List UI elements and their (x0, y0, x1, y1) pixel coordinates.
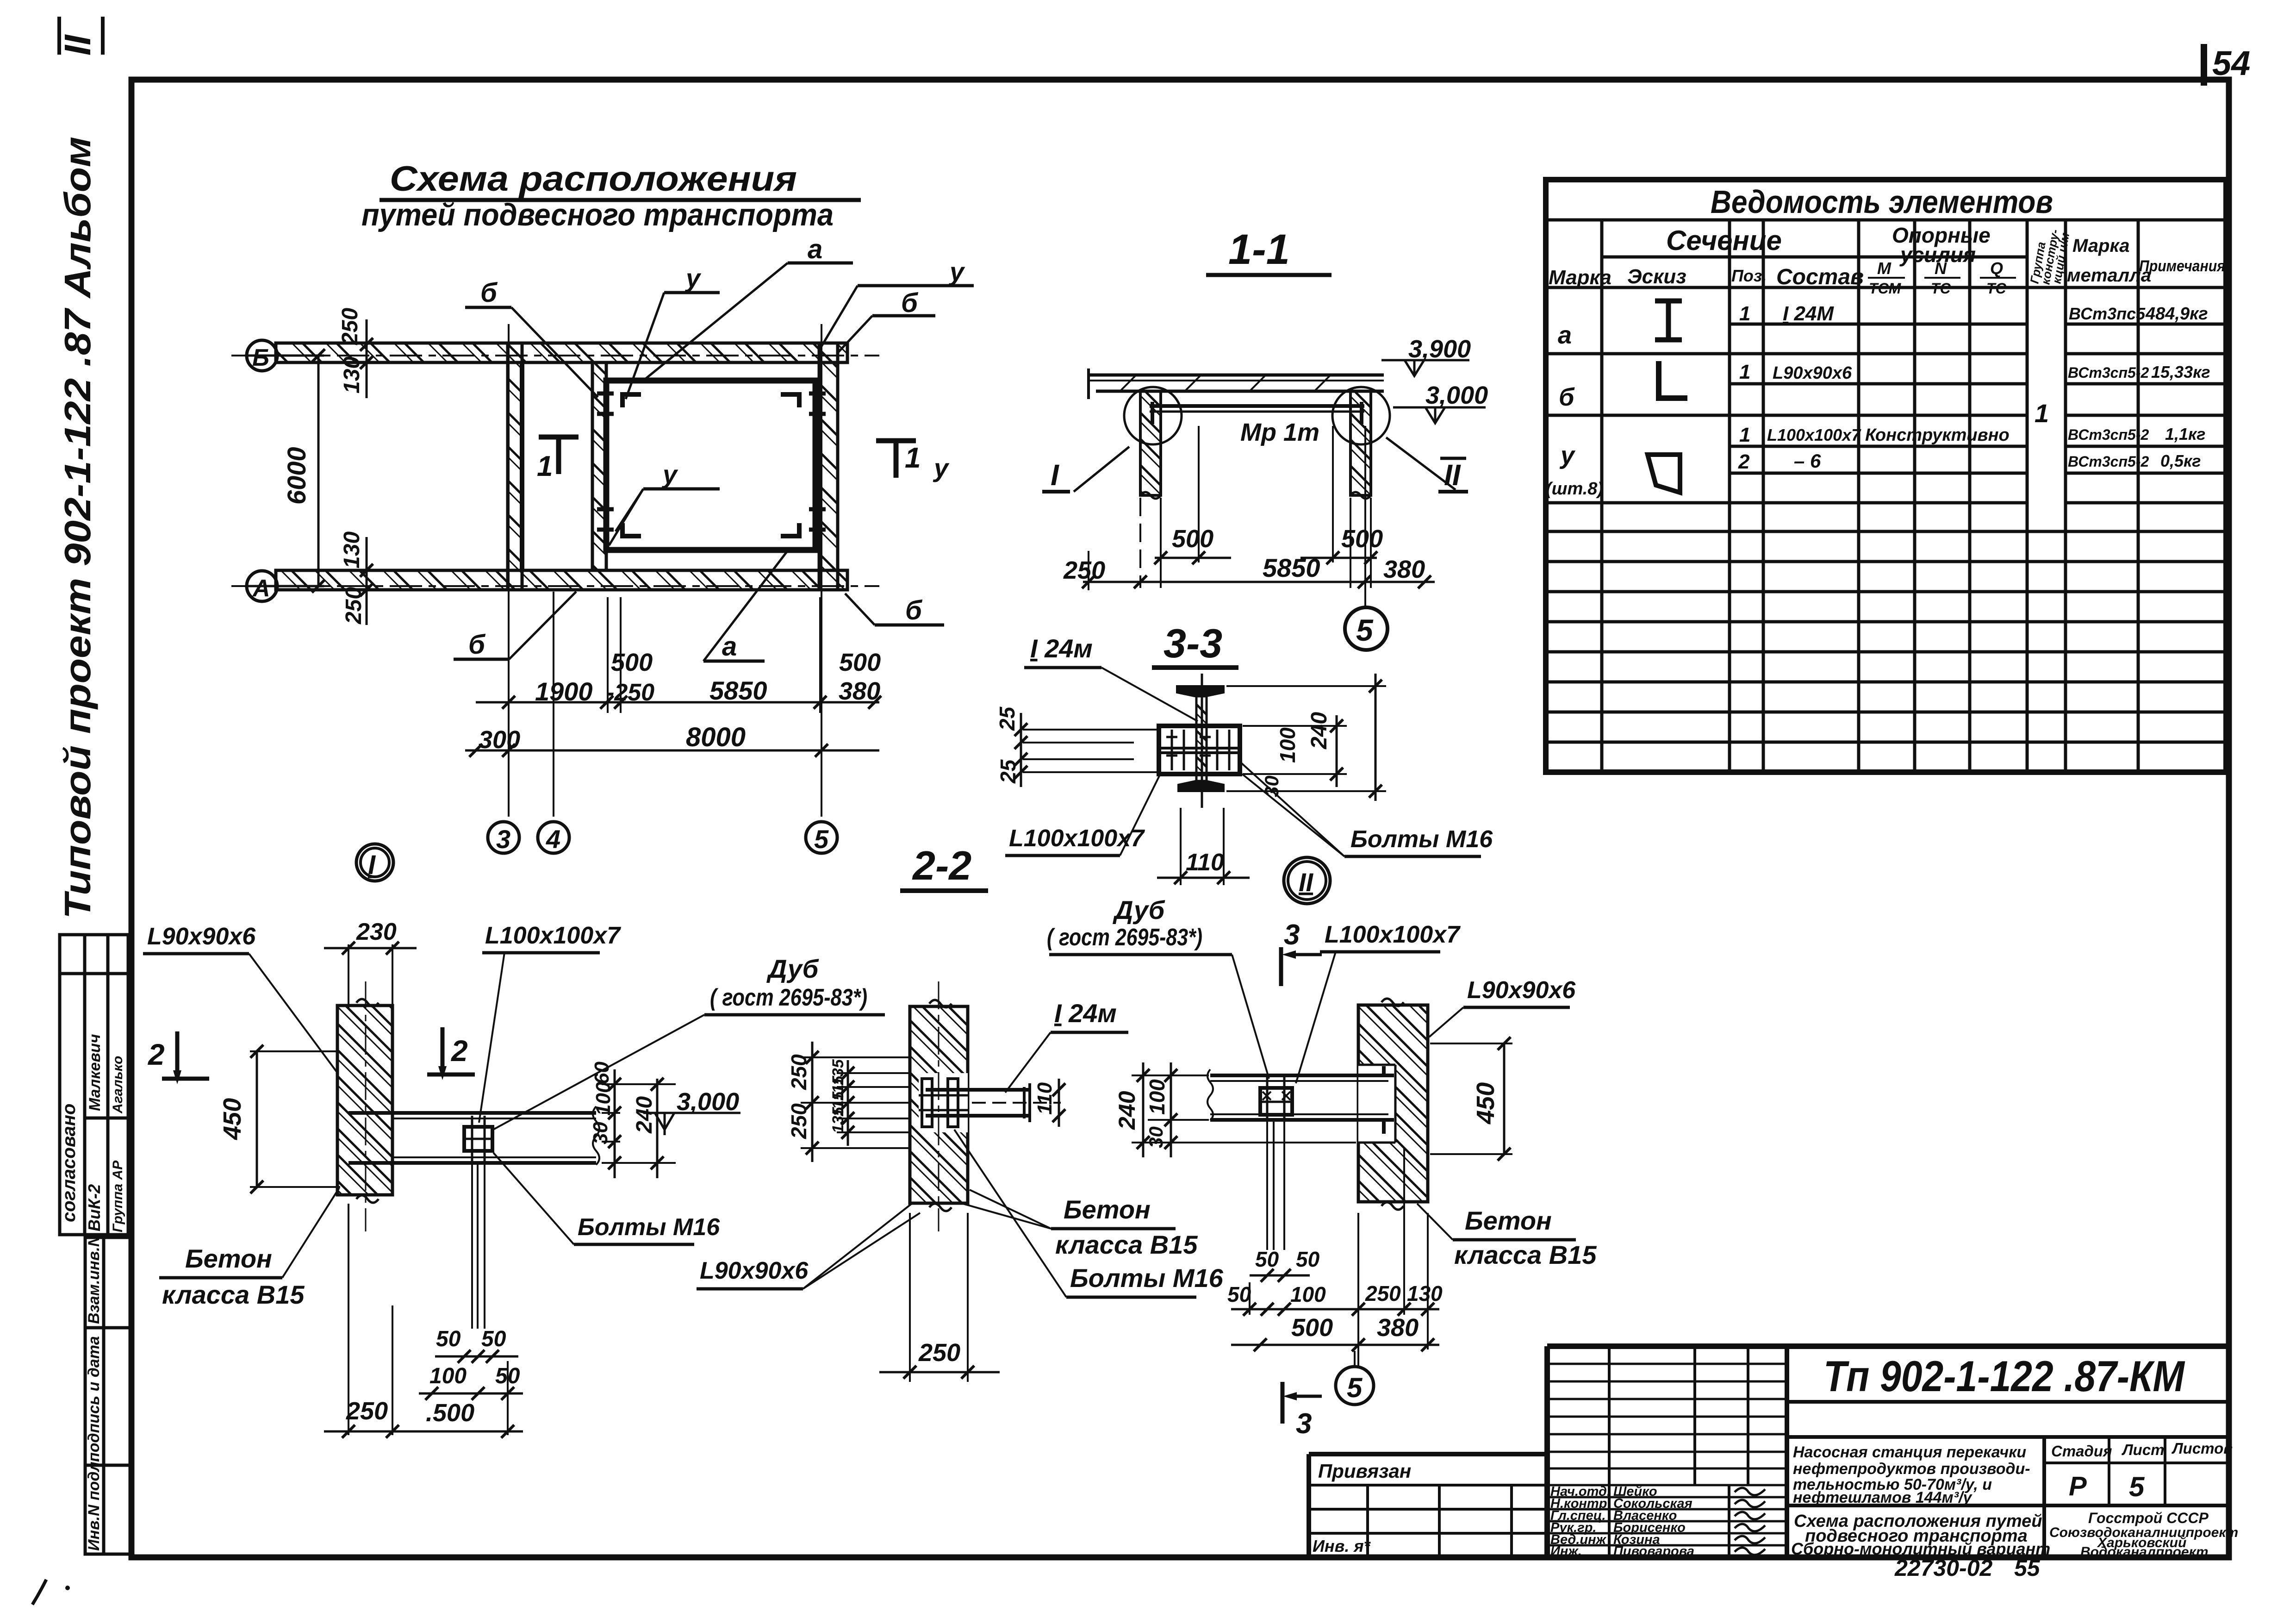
wall left (508, 343, 522, 590)
svg-text:240: 240 (1114, 1091, 1140, 1130)
svg-text:Стадия: Стадия (2051, 1443, 2112, 1460)
svg-text:Малкевич: Малкевич (86, 1034, 104, 1111)
axis 4 line (553, 592, 554, 817)
svg-text:250: 250 (346, 1397, 388, 1425)
dim line row 1 (476, 701, 879, 704)
svg-text:Мр 1т: Мр 1т (1240, 418, 1319, 446)
svg-text:Водоканалпроект: Водоканалпроект (2080, 1544, 2209, 1560)
svg-text:L100х100х7: L100х100х7 (1325, 921, 1461, 948)
svg-text:5: 5 (2129, 1471, 2145, 1502)
svg-text:240: 240 (1307, 712, 1332, 750)
svg-text:металла: металла (2067, 265, 2151, 286)
svg-text:Болты М16: Болты М16 (1070, 1263, 1224, 1293)
svg-text:6000: 6000 (282, 447, 311, 505)
svg-text:класса В15: класса В15 (162, 1280, 305, 1309)
svg-text:2: 2 (1738, 450, 1750, 473)
svg-text:50: 50 (1255, 1247, 1279, 1271)
vedomost table frame (1546, 180, 2226, 772)
bolts in plate (1166, 730, 1229, 770)
detail II: dims 50 100 250 130 (1231, 1308, 1439, 1311)
svg-text:130: 130 (340, 531, 364, 568)
svg-text:(шт.8): (шт.8) (1546, 479, 1603, 499)
svg-text:Конструктивно: Конструктивно (1865, 425, 2010, 445)
witness lines right (1226, 686, 1386, 791)
svg-text:.500: .500 (426, 1399, 474, 1427)
stray pen mark dot (65, 1586, 70, 1590)
svg-text:100: 100 (1276, 727, 1300, 763)
svg-text:L90х90х6: L90х90х6 (1467, 977, 1576, 1004)
dim 240 (1375, 674, 1377, 801)
detail I: beam (348, 1111, 596, 1115)
svg-text:I 24м: I 24м (1054, 999, 1117, 1028)
detail I: section mark 2 right (441, 1027, 445, 1071)
svg-text:54: 54 (2212, 44, 2250, 82)
leader II (1386, 437, 1456, 490)
section mark 1 right (876, 441, 916, 478)
svg-text:5850: 5850 (709, 676, 767, 705)
axis circle Б (247, 340, 277, 371)
connection circle right (1332, 387, 1390, 444)
svg-text:ВСт3сп5-2: ВСт3сп5-2 (2068, 426, 2149, 443)
detail II: left dims (1132, 1075, 1356, 1143)
svg-text:у: у (661, 460, 678, 489)
detail II: dims 50 50 (1250, 1274, 1310, 1277)
svg-text:L90х90х6: L90х90х6 (700, 1257, 809, 1284)
wall top (276, 343, 847, 362)
slab hatch ticks (1120, 375, 1331, 391)
svg-text:250: 250 (338, 308, 362, 345)
detail II: witness verticals (1357, 1213, 1359, 1368)
svg-text:25: 25 (996, 759, 1020, 784)
svg-text:1: 1 (1739, 361, 1750, 383)
svg-text:380: 380 (1383, 556, 1425, 583)
2-2 wall centerline (938, 981, 940, 1231)
svg-text:500: 500 (1341, 525, 1383, 553)
svg-text:110: 110 (1186, 849, 1224, 876)
wall partition (592, 362, 606, 570)
witness lines bottom (508, 592, 510, 817)
svg-text:130: 130 (340, 356, 364, 394)
svg-text:Ведомость элементов: Ведомость элементов (1711, 184, 2053, 220)
svg-text:Агалько: Агалько (110, 1056, 125, 1114)
svg-text:б: б (1559, 383, 1575, 411)
leader I (1074, 447, 1129, 492)
svg-text:Сборно-монолитный вариант: Сборно-монолитный вариант (1791, 1539, 2050, 1558)
svg-text:Поз.: Поз. (1731, 266, 1767, 285)
svg-text:а: а (722, 631, 737, 662)
svg-text:50: 50 (436, 1327, 461, 1351)
witness lines (1140, 426, 1371, 588)
svg-text:Сечение: Сечение (1666, 225, 1782, 256)
svg-text:б: б (468, 630, 486, 660)
svg-text:ВСт3сп5-2: ВСт3сп5-2 (2068, 453, 2149, 470)
svg-text:подпись и дата: подпись и дата (85, 1336, 103, 1462)
dim 100 (1336, 715, 1338, 787)
axis 3 line (508, 324, 510, 817)
witness lines left (1023, 730, 1157, 772)
svg-text:2: 2 (451, 1034, 468, 1068)
svg-text:путей подвесного транспорта: путей подвесного транспорта (361, 197, 834, 232)
beam end symbol bottom-left (597, 509, 614, 530)
beam end symbol bottom-right (809, 509, 826, 530)
svg-text:25: 25 (995, 706, 1019, 731)
svg-text:Типовой проект 902-1-122 .87: Типовой проект 902-1-122 .87 Альбом (57, 137, 98, 919)
2-2 bottom dim 250 (909, 1213, 911, 1382)
axis circle А (247, 571, 277, 601)
detail II: axis 5 circle (1354, 1351, 1356, 1367)
svg-text:класса В15: класса В15 (1055, 1230, 1198, 1259)
svg-text:500: 500 (1172, 525, 1213, 553)
svg-text:I 24М: I 24М (1783, 302, 1834, 325)
svg-text:100: 100 (592, 1081, 615, 1116)
svg-text:Бетон: Бетон (1465, 1206, 1552, 1235)
svg-text:Группа АР: Группа АР (110, 1160, 125, 1232)
detail II: bolt drop lines (1266, 1120, 1268, 1250)
svg-text:15,33кг: 15,33кг (2151, 362, 2210, 381)
svg-text:Привязан: Привязан (1318, 1460, 1411, 1482)
svg-text:ВиК-2: ВиК-2 (85, 1184, 104, 1231)
dim 6000 vertical (317, 356, 320, 586)
svg-text:у: у (933, 453, 950, 482)
svg-text:230: 230 (356, 918, 397, 945)
svg-text:нефтешламов 144м³/у: нефтешламов 144м³/у (1793, 1489, 1972, 1506)
svg-text:класса В15: класса В15 (1454, 1240, 1597, 1269)
svg-text:Марка: Марка (1549, 266, 1612, 289)
monorail beam Мр 1т (1150, 404, 1364, 408)
svg-text:Б: Б (252, 344, 269, 371)
svg-text:Схема расположения: Схема расположения (390, 159, 797, 199)
svg-text:I: I (368, 850, 376, 880)
svg-text:I: I (1051, 458, 1059, 492)
svg-text:2-2: 2-2 (912, 843, 971, 888)
svg-text:60: 60 (591, 1062, 613, 1084)
svg-text:L90х90х6: L90х90х6 (147, 923, 256, 950)
detail I: wall (337, 1006, 392, 1195)
inner face heavy line (520, 362, 524, 570)
svg-text:2: 2 (148, 1038, 165, 1071)
detail II: dim 450 (1503, 1043, 1506, 1154)
svg-text:0,5кг: 0,5кг (2160, 451, 2201, 470)
I-beam top flange (1177, 686, 1224, 696)
axis Б dash-dot line (231, 355, 879, 356)
svg-text:а: а (1558, 321, 1572, 349)
svg-text:100: 100 (429, 1364, 467, 1388)
svg-text:Q: Q (1990, 259, 2003, 278)
page number 54 (2201, 44, 2207, 86)
svg-text:I 24м: I 24м (1030, 634, 1093, 663)
svg-text:б: б (901, 288, 919, 318)
svg-text:1-1: 1-1 (1228, 226, 1290, 273)
svg-text:250: 250 (1063, 556, 1105, 584)
detail I: section mark 2 left (175, 1031, 180, 1075)
column left (1140, 391, 1161, 495)
svg-text:Марка: Марка (2072, 236, 2130, 256)
svg-text:II: II (1444, 458, 1461, 492)
svg-text:1: 1 (537, 450, 553, 482)
2-2 beam pocket (919, 1073, 968, 1132)
left margin stamp lower (инв. подпись) (85, 1237, 131, 1554)
detail II: beam (1210, 1074, 1394, 1077)
svg-text:100: 100 (1290, 1282, 1326, 1306)
svg-text:ТС: ТС (1986, 280, 2007, 297)
svg-text:3,900: 3,900 (1408, 335, 1471, 363)
svg-text:у: у (684, 263, 702, 293)
svg-text:( гост 2695-83*): ( гост 2695-83*) (1047, 924, 1202, 951)
svg-text:б: б (905, 595, 923, 625)
corner angle у bottom-left (622, 523, 641, 536)
svg-text:5850: 5850 (1263, 553, 1320, 582)
stray pen mark (32, 1580, 46, 1605)
detail I: right beam dims (602, 1084, 676, 1163)
svg-text:ВСт3пс5: ВСт3пс5 (2069, 304, 2146, 323)
svg-text:100: 100 (1145, 1079, 1169, 1115)
detail II: beam pocket (1358, 1065, 1395, 1143)
svg-text:300: 300 (479, 726, 520, 754)
svg-text:5: 5 (814, 824, 829, 854)
svg-text:380: 380 (839, 677, 880, 705)
detail II: section mark 3 bottom (1281, 1382, 1285, 1424)
svg-text:Дуб: Дуб (1113, 895, 1165, 924)
wall right (819, 343, 838, 590)
svg-text:1: 1 (1739, 302, 1750, 325)
svg-text:L100х100х7: L100х100х7 (1767, 425, 1861, 444)
detail I: bolt drop lines (471, 1163, 473, 1329)
svg-text:110: 110 (1033, 1082, 1056, 1115)
detail II: bolt assembly (1260, 1088, 1292, 1115)
svg-text:5: 5 (1347, 1372, 1363, 1403)
2-2 end plate bolts (922, 1079, 932, 1127)
detail I: dim 450 (256, 1051, 258, 1187)
svg-text:500: 500 (1291, 1314, 1333, 1342)
svg-text:240: 240 (632, 1096, 657, 1134)
svg-text:L90х90х6: L90х90х6 (1773, 363, 1852, 383)
column right (1350, 391, 1371, 495)
svg-text:Лист: Лист (2122, 1441, 2165, 1458)
svg-text:250: 250 (918, 1339, 960, 1367)
svg-text:ТСМ: ТСМ (1869, 280, 1902, 297)
corner angle у top-left (622, 394, 641, 407)
detail II: angle bracket bottom (1366, 1120, 1384, 1134)
detail II: dims 500 380 (1231, 1344, 1439, 1346)
svg-text:Р: Р (2069, 1471, 2087, 1501)
dim line row 2 (465, 750, 879, 752)
svg-text:б: б (480, 278, 498, 308)
svg-text:-250: -250 (606, 679, 654, 706)
svg-text:( гост 2695-83*): ( гост 2695-83*) (710, 984, 867, 1011)
monorail beam а heavy rectangle (606, 381, 815, 550)
svg-text:Инв. я*: Инв. я* (1313, 1537, 1371, 1555)
svg-text:Инж.: Инж. (1550, 1544, 1582, 1559)
axis 5 witness line (1364, 426, 1366, 608)
axis circle 3 (488, 822, 519, 853)
svg-text:Примечания: Примечания (2139, 257, 2225, 275)
detail circle II (1284, 857, 1330, 904)
detail I: bottom dims (435, 1355, 518, 1358)
svg-text:L100х100х7: L100х100х7 (485, 922, 621, 949)
2-2 wall (910, 1006, 968, 1203)
svg-text:Насосная станция перекачки: Насосная станция перекачки (1793, 1443, 2026, 1461)
svg-text:380: 380 (1377, 1314, 1419, 1342)
svg-text:1,1кг: 1,1кг (2165, 425, 2206, 443)
svg-text:30: 30 (1145, 1126, 1167, 1148)
axis circle 4 (538, 822, 569, 853)
svg-text:а: а (808, 234, 822, 264)
svg-text:II: II (57, 34, 98, 56)
svg-text:130: 130 (1407, 1281, 1443, 1305)
axis А dash-dot line (231, 585, 879, 587)
dim 500 left (607, 597, 609, 713)
I-beam web (1196, 696, 1207, 781)
beam end symbol top-right (809, 394, 826, 414)
svg-text:Бетон: Бетон (1064, 1195, 1151, 1224)
svg-text:250: 250 (787, 1103, 811, 1139)
svg-text:Взам.инв.N: Взам.инв.N (85, 1235, 103, 1324)
bottom dim line (1083, 581, 1435, 583)
svg-text:3: 3 (1284, 919, 1300, 951)
svg-text:Дуб: Дуб (766, 954, 819, 983)
svg-text:484,9кг: 484,9кг (2145, 304, 2208, 324)
detail circle I (356, 844, 393, 881)
svg-text:А: А (252, 575, 270, 602)
detail II: wall (1358, 1005, 1428, 1202)
svg-text:3,000: 3,000 (677, 1088, 739, 1116)
connection circle left (1124, 387, 1182, 444)
svg-text:135: 135 (829, 1106, 847, 1133)
svg-text:50: 50 (1227, 1282, 1251, 1306)
svg-text:– 6: – 6 (1794, 450, 1821, 472)
detail I: bolt assembly (464, 1127, 492, 1151)
svg-text:450: 450 (1472, 1082, 1500, 1124)
I-beam bottom flange (1178, 781, 1224, 791)
svg-text:4: 4 (546, 824, 560, 854)
title block outline (1309, 1346, 2230, 1557)
svg-text:ВСт3сп5-2: ВСт3сп5-2 (2068, 364, 2149, 381)
dim 500 right (819, 597, 821, 713)
left margin stamp upper (согласовано) (60, 935, 128, 1235)
svg-text:у: у (948, 257, 965, 286)
dim 500 right (1300, 557, 1377, 559)
svg-text:М: М (1877, 259, 1892, 278)
svg-text:30: 30 (589, 1122, 612, 1144)
axis circle 5 (806, 822, 837, 853)
svg-text:500: 500 (611, 649, 653, 676)
slab lines (1089, 374, 1384, 377)
svg-text:нефтепродуктов производи-: нефтепродуктов производи- (1793, 1460, 2030, 1478)
connection plate box (1159, 726, 1240, 774)
svg-text:50: 50 (481, 1327, 506, 1351)
2-2 beam (926, 1088, 1030, 1092)
svg-text:у: у (1559, 442, 1576, 469)
svg-text:Болты М16: Болты М16 (578, 1214, 720, 1241)
svg-text:3,000: 3,000 (1425, 381, 1488, 409)
svg-text:22730-02: 22730-02 (1894, 1555, 1992, 1581)
svg-text:N: N (1935, 259, 1947, 278)
svg-text:Тп 902-1-122 .87-КМ: Тп 902-1-122 .87-КМ (1823, 1352, 2185, 1400)
svg-text:Бетон: Бетон (185, 1244, 272, 1273)
dim 110 bottom (1180, 808, 1182, 885)
svg-text:3-3: 3-3 (1164, 620, 1222, 666)
svg-text:5: 5 (1356, 613, 1374, 647)
svg-text:1: 1 (905, 442, 921, 474)
axis 5 line (821, 324, 822, 817)
detail II: section mark 3 top (1279, 947, 1283, 986)
section mark 1 left (539, 437, 579, 474)
corner angle у top-right (781, 394, 799, 407)
svg-text:500: 500 (839, 649, 881, 676)
svg-text:8000: 8000 (686, 722, 746, 752)
dims 250 130 top (366, 319, 368, 398)
svg-text:250: 250 (1365, 1281, 1401, 1305)
svg-text:II: II (1299, 868, 1314, 897)
svg-text:ТС: ТС (1931, 280, 1951, 297)
svg-text:3: 3 (496, 824, 510, 854)
svg-text:55: 55 (2014, 1555, 2041, 1581)
svg-text:Инв.N подл.: Инв.N подл. (85, 1457, 103, 1551)
corner angle у bottom-right (781, 523, 799, 536)
detail II: angle bracket top (1366, 1066, 1384, 1075)
svg-text:450: 450 (218, 1098, 246, 1140)
svg-text:30: 30 (1261, 775, 1282, 797)
svg-text:Листов: Листов (2172, 1440, 2233, 1457)
svg-text:250: 250 (787, 1054, 811, 1090)
dim 500 left (1155, 557, 1231, 559)
svg-text:1900: 1900 (535, 677, 593, 706)
wall bottom (276, 570, 847, 590)
I-beam centerline (1201, 674, 1203, 808)
svg-text:согласовано: согласовано (59, 1104, 79, 1222)
dims 130 250 bottom (366, 537, 368, 625)
svg-text:1: 1 (2035, 399, 2049, 428)
detail I: wall centerline (365, 981, 367, 1231)
svg-text:Пивоварова: Пивоварова (1613, 1544, 1694, 1559)
svg-text:Эскиз: Эскиз (1627, 265, 1686, 288)
svg-text:1: 1 (1739, 424, 1750, 446)
svg-text:50: 50 (1296, 1247, 1320, 1271)
svg-text:Состав: Состав (1776, 265, 1864, 289)
svg-text:Госстрой СССР: Госстрой СССР (2088, 1510, 2209, 1526)
column break marks (1140, 492, 1161, 499)
beam end symbol top-left (597, 394, 614, 414)
svg-text:250: 250 (342, 587, 366, 625)
2-2 left dims (801, 1057, 910, 1148)
svg-text:3: 3 (1296, 1408, 1312, 1440)
svg-text:Болты М16: Болты М16 (1350, 826, 1493, 853)
axis circle 5 of 3-3 (1345, 607, 1388, 650)
